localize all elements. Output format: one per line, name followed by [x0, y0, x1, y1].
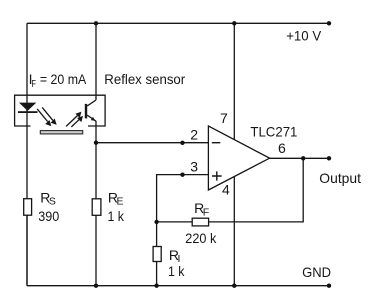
node output feedback junction: [301, 156, 305, 160]
wire left rail: [26, 23, 28, 285]
sensor box (bottom edge open in middle): [15, 95, 106, 126]
svg-text:3: 3: [190, 158, 198, 174]
svg-text:6: 6: [278, 140, 286, 156]
wire pin7 supply: [233, 23, 235, 139]
node dot on pin3 wire: [180, 173, 184, 177]
svg-text:390: 390: [38, 208, 59, 224]
op-amp U1 triangle: [208, 126, 269, 190]
node GND terminal: [327, 284, 331, 288]
op-amp minus sign: [212, 142, 221, 144]
LED light arrow 1: [37, 109, 51, 126]
wire RS leads: [26, 215, 28, 286]
svg-text:F: F: [31, 78, 36, 90]
phototransistor Q1 emitter: [87, 115, 96, 121]
phototransistor Q1 base bar: [85, 104, 87, 119]
phototransistor Q1 collector: [87, 100, 96, 106]
node supply junction at pin7 column: [232, 21, 236, 25]
wire RF row right feedback: [209, 158, 304, 222]
wire sensor emitter column: [95, 121, 97, 199]
wire pin3 non-inverting input: [157, 175, 209, 247]
node ground junction at pin4: [232, 284, 236, 288]
node +10V terminal: [327, 21, 331, 25]
wire RF row left: [157, 221, 193, 223]
svg-text:S: S: [49, 195, 56, 207]
resistor RE body: [92, 199, 101, 216]
node supply junction at sensor column: [94, 21, 98, 25]
op-amp plus sign: [212, 171, 222, 180]
svg-text:1 k: 1 k: [108, 208, 125, 224]
svg-text:1 k: 1 k: [168, 263, 185, 279]
wire RE bottom lead: [95, 215, 97, 285]
wire top +10V rail: [27, 22, 329, 24]
svg-text:E: E: [117, 195, 124, 207]
node dot on pin2 wire: [180, 141, 184, 145]
node pin2 junction at emitter column: [94, 141, 98, 145]
phototransistor light arrow 1: [66, 112, 81, 126]
node output terminal: [327, 156, 331, 160]
svg-text:+10 V: +10 V: [286, 28, 322, 44]
resistor RS body: [24, 199, 32, 216]
resistor RI body: [153, 247, 161, 262]
wire bottom GND rail: [27, 285, 329, 287]
svg-text:TLC271: TLC271: [250, 123, 297, 139]
phototransistor light arrow 2: [71, 116, 82, 127]
svg-text:Reflex sensor: Reflex sensor: [104, 71, 185, 87]
svg-text:7: 7: [220, 110, 228, 126]
svg-text:= 20 mA: = 20 mA: [40, 71, 87, 87]
node ground junction at RE: [94, 284, 98, 288]
LED D1 anode triangle: [19, 103, 36, 111]
svg-text:Output: Output: [319, 170, 361, 186]
wire sensor collector column: [95, 23, 97, 100]
svg-text:220 k: 220 k: [185, 230, 217, 246]
wire pin4 ground: [233, 176, 235, 285]
wire RI bottom lead: [156, 262, 158, 286]
svg-text:2: 2: [190, 126, 198, 142]
wire pin2 inverting input: [96, 142, 208, 144]
node ground junction at RI: [154, 284, 158, 288]
svg-text:GND: GND: [302, 264, 331, 280]
svg-text:4: 4: [222, 182, 230, 198]
resistor RF body: [192, 218, 208, 226]
wire output: [270, 157, 329, 159]
reflective mirror bar: [40, 131, 82, 134]
LED light arrow 2: [42, 107, 56, 124]
svg-text:F: F: [203, 206, 209, 218]
node RF-RI junction: [154, 220, 158, 224]
LED D1 cathode bar: [18, 111, 38, 113]
